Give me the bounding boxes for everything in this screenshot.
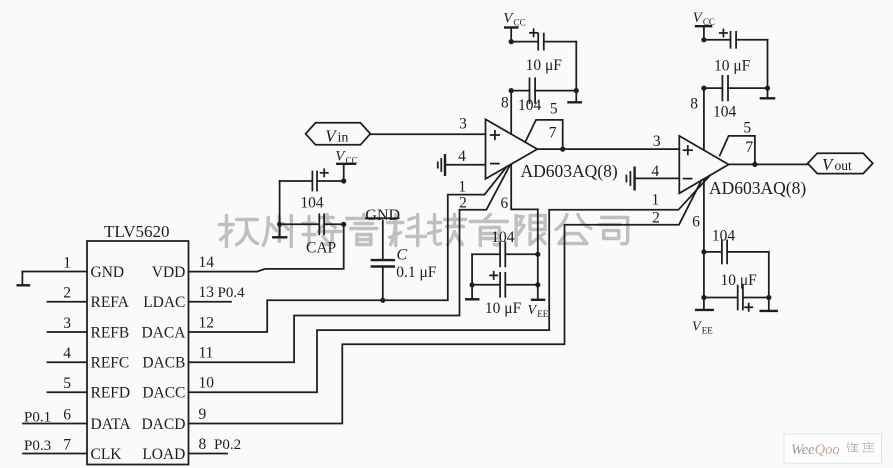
capacitor 104 (CAP block top, electrolytic mark) <box>280 169 344 211</box>
wire DACB pin11 to U2 pin2 <box>189 165 510 362</box>
wire VEE1 right rail <box>537 209 539 298</box>
svg-text:104: 104 <box>713 104 737 121</box>
capacitor 10uF VEE2 <box>704 272 769 311</box>
svg-text:CC: CC <box>514 18 526 28</box>
svg-text:VDD: VDD <box>152 264 186 281</box>
wire LOAD pin8 stub <box>189 453 228 455</box>
capacitor 104 VEE1 <box>472 229 538 266</box>
ground at U3 pin 4 <box>626 163 679 190</box>
output terminal Vout <box>808 153 873 174</box>
node U2 output <box>560 147 565 152</box>
svg-text:in: in <box>338 130 349 145</box>
node VEE1 <box>470 252 541 288</box>
svg-text:REFB: REFB <box>91 324 130 341</box>
svg-text:12: 12 <box>199 314 215 331</box>
svg-text:DATA: DATA <box>91 416 132 433</box>
ground net GND <box>365 207 400 260</box>
svg-text:8: 8 <box>501 95 509 112</box>
svg-text:V: V <box>528 303 538 318</box>
ground bar U2 Vcc <box>567 101 582 103</box>
svg-text:14: 14 <box>199 254 215 271</box>
capacitor 10uF at U2 Vcc <box>511 29 576 74</box>
wire VDD pin14 to Vcc node <box>189 224 344 271</box>
node U3 output <box>752 162 757 167</box>
U2 pin1 pin2 labels <box>458 179 466 212</box>
svg-text:REFD: REFD <box>91 385 131 402</box>
svg-text:REFC: REFC <box>91 355 130 372</box>
input terminal Vin <box>306 123 371 146</box>
label P0.2 <box>214 437 241 453</box>
wire DACD pin9 to U3 pin2 <box>189 180 702 423</box>
svg-text:GND: GND <box>91 264 125 281</box>
svg-text:LOAD: LOAD <box>142 446 185 463</box>
label P0.1 <box>24 410 51 426</box>
label P0.4 <box>218 285 246 301</box>
svg-text:3: 3 <box>459 115 467 132</box>
svg-text:10 μF: 10 μF <box>526 57 563 74</box>
svg-text:10 μF: 10 μF <box>714 58 751 75</box>
svg-text:4: 4 <box>63 345 71 362</box>
svg-text:5: 5 <box>550 100 558 117</box>
ground at U2 pin 4 <box>438 148 486 176</box>
svg-text:5: 5 <box>63 375 71 392</box>
svg-text:8: 8 <box>690 96 698 113</box>
wire CAP block left rail <box>279 181 281 237</box>
svg-text:2: 2 <box>652 210 660 227</box>
svg-text:104: 104 <box>300 195 324 212</box>
svg-text:out: out <box>835 158 853 173</box>
svg-text:7: 7 <box>745 139 753 156</box>
svg-text:DACA: DACA <box>141 324 186 341</box>
node C to DACA wire <box>380 298 385 303</box>
svg-text:2: 2 <box>459 194 467 211</box>
svg-text:AD603AQ(8): AD603AQ(8) <box>709 178 806 198</box>
wire U2 pin 6 <box>501 164 538 212</box>
wire U3 pin 6 <box>692 179 704 252</box>
svg-text:6: 6 <box>63 406 71 423</box>
svg-text:5: 5 <box>743 120 751 137</box>
wire DACC pin10 to U3 pin1 <box>189 175 711 392</box>
node CAP block <box>277 178 346 227</box>
node VEE2 <box>701 249 771 300</box>
ground bar U3 Vcc <box>760 97 776 99</box>
wire LDAC pin13 stub <box>189 301 232 303</box>
power VEE1 terminal <box>528 300 549 319</box>
U3 pin1 pin2 labels <box>652 192 660 227</box>
wire U3 pin 8 <box>690 88 704 150</box>
svg-text:2: 2 <box>63 285 71 302</box>
svg-text:V: V <box>692 320 702 335</box>
wire DACA pin12 to U2 pin1 <box>189 167 507 332</box>
ground at U1 pin 1 <box>17 272 31 286</box>
svg-text:WeeQoo: WeeQoo <box>791 442 840 458</box>
svg-text:11: 11 <box>199 345 214 362</box>
op-amp U2 AD603AQ(8) <box>486 119 618 181</box>
ground bar VEE2 right <box>760 310 778 312</box>
node U3 Vcc <box>701 37 770 90</box>
power Vcc at U3 <box>693 10 715 40</box>
wire U2 Vcc right rail <box>575 42 577 102</box>
IC U1 TLV5620 body <box>87 222 189 465</box>
svg-text:AD603AQ(8): AD603AQ(8) <box>521 161 618 181</box>
svg-text:DACC: DACC <box>142 385 185 402</box>
svg-text:104: 104 <box>491 229 515 246</box>
svg-text:3: 3 <box>63 315 71 332</box>
svg-text:P0.2: P0.2 <box>214 437 241 453</box>
capacitor 104 VEE2 <box>704 227 769 263</box>
svg-text:DACD: DACD <box>141 416 185 433</box>
svg-text:7: 7 <box>549 124 557 141</box>
svg-text:1: 1 <box>458 179 466 196</box>
svg-text:DACB: DACB <box>142 355 185 372</box>
svg-text:3: 3 <box>653 133 661 150</box>
capacitor C 0.1uF <box>371 247 437 301</box>
svg-text:9: 9 <box>199 406 207 423</box>
wire U2 output to U3 pin3 <box>537 133 679 150</box>
capacitor 10uF at U3 Vcc <box>704 29 768 74</box>
svg-text:104: 104 <box>712 227 736 244</box>
svg-text:TLV5620: TLV5620 <box>104 222 170 241</box>
svg-text:0.1 μF: 0.1 μF <box>396 264 437 281</box>
power Vcc at U2 <box>503 11 525 42</box>
power Vcc (CAP block) <box>335 148 357 181</box>
capacitor 10uF VEE1 <box>472 272 538 317</box>
wire VEE2 right rail <box>768 252 770 310</box>
op-amp U3 AD603AQ(8) <box>679 136 806 198</box>
U1 left pin wires 1-7 <box>22 254 87 453</box>
svg-text:10 μF: 10 μF <box>485 300 522 317</box>
svg-text:C: C <box>397 247 408 264</box>
wire U3 output to Vout <box>729 163 808 165</box>
ground bar VEE1 left <box>465 298 480 300</box>
svg-text:4: 4 <box>651 163 659 180</box>
U1 pin numbers 14-8 <box>199 254 215 453</box>
svg-text:EE: EE <box>702 326 713 336</box>
label P0.3 <box>24 438 51 454</box>
svg-text:P0.3: P0.3 <box>24 438 51 454</box>
U2 pins 5 7 flag <box>525 100 562 149</box>
svg-text:4: 4 <box>458 148 466 165</box>
wire U2 pin 8 <box>501 91 511 135</box>
capacitor 104 at U3 Vcc <box>704 76 768 121</box>
svg-text:8: 8 <box>199 436 207 453</box>
svg-text:P0.1: P0.1 <box>24 410 51 426</box>
svg-text:6: 6 <box>692 214 700 231</box>
wire Vin to U2 pin3 <box>370 115 485 134</box>
svg-text:6: 6 <box>501 195 509 212</box>
svg-text:P0.4: P0.4 <box>218 285 246 301</box>
power VEE2 terminal <box>692 310 714 336</box>
ground bar CAP block <box>272 236 287 238</box>
wire VEE1 left rail <box>471 254 473 298</box>
svg-text:1: 1 <box>63 254 71 271</box>
capacitor CAP (CAP block bottom) <box>280 214 344 256</box>
wire VEE2 left rail <box>703 252 705 309</box>
svg-text:LDAC: LDAC <box>143 294 185 311</box>
svg-text:10 μF: 10 μF <box>721 272 758 289</box>
wire U3 Vcc right rail <box>767 40 769 98</box>
svg-text:10: 10 <box>199 375 215 392</box>
capacitor 104 at U2 Vcc <box>511 78 576 114</box>
svg-text:1: 1 <box>652 192 660 209</box>
U3 pins 5 7 flag <box>720 120 755 165</box>
svg-text:CAP: CAP <box>306 240 336 257</box>
svg-text:REFA: REFA <box>91 294 130 311</box>
svg-text:7: 7 <box>63 436 71 453</box>
node U2 Vcc <box>509 39 579 93</box>
svg-text:CLK: CLK <box>91 446 123 463</box>
svg-text:13: 13 <box>199 284 215 301</box>
svg-text:104: 104 <box>518 97 542 114</box>
svg-text:EE: EE <box>537 309 548 319</box>
